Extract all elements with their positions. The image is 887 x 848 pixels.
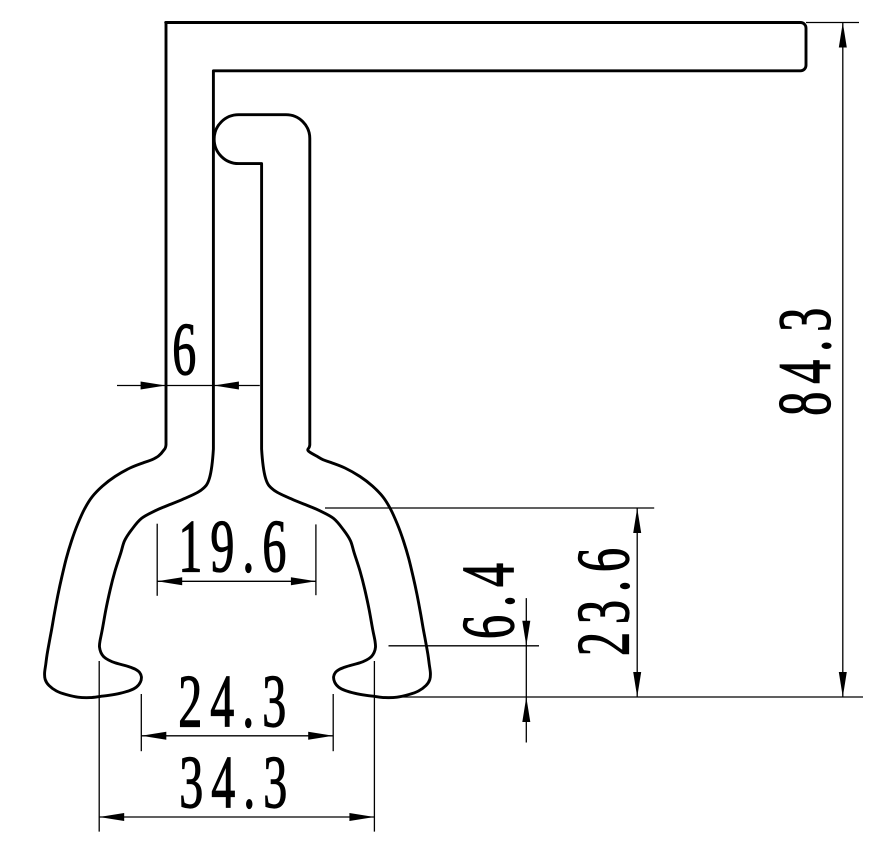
svg-text:24.3: 24.3 [178,660,294,743]
svg-text:34.3: 34.3 [179,741,295,824]
svg-text:19.6: 19.6 [178,505,294,588]
svg-text:23.6: 23.6 [562,540,645,656]
svg-text:6.4: 6.4 [447,555,530,639]
svg-text:6: 6 [172,308,204,391]
svg-text:84.3: 84.3 [763,300,846,416]
